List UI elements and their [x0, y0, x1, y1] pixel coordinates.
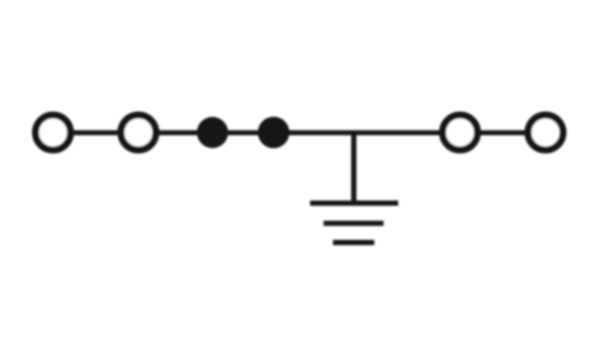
wire segment terminal1 to terminal2: [70, 130, 121, 135]
ground bar 1: [310, 201, 398, 206]
bridge point 2 (filled circle): [258, 117, 290, 149]
terminal point 2 (open circle): [121, 115, 156, 150]
wire segment terminal2 to terminal3: [156, 130, 443, 135]
terminal point 3 (open circle): [443, 115, 478, 150]
terminal point 4 (open circle): [528, 115, 563, 150]
wire segment terminal3 to terminal4: [477, 130, 529, 135]
terminal point 1 (open circle): [36, 115, 71, 150]
wire to ground (vertical): [351, 133, 356, 201]
ground bar 3: [333, 240, 374, 245]
ground bar 2: [324, 221, 384, 226]
bridge point 1 (filled circle): [197, 117, 228, 148]
